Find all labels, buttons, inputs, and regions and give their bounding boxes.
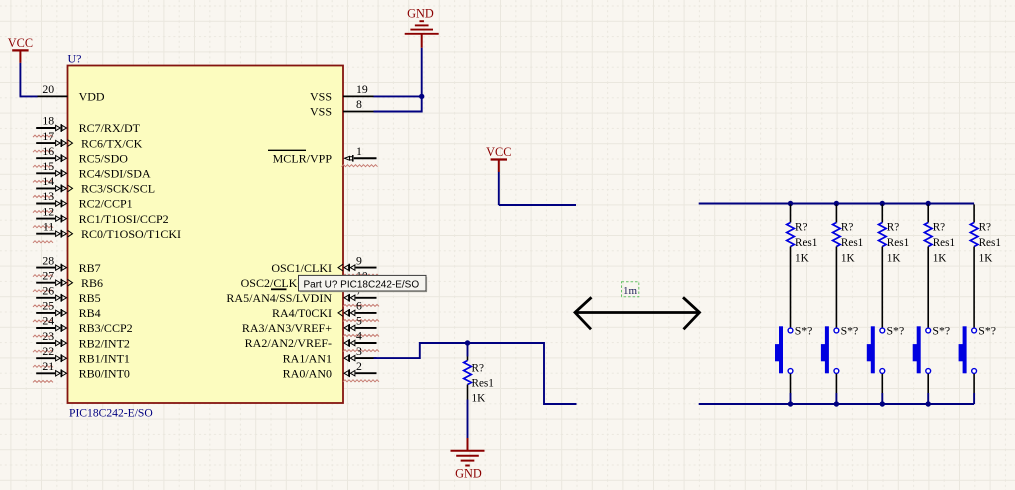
svg-text:U?: U? bbox=[68, 52, 82, 66]
svg-text:25: 25 bbox=[42, 299, 54, 313]
svg-text:R?: R? bbox=[795, 222, 807, 234]
svg-text:23: 23 bbox=[42, 329, 54, 343]
svg-text:S*?: S*? bbox=[795, 323, 813, 337]
svg-text:1: 1 bbox=[356, 144, 362, 158]
svg-text:RA5/AN4/SS/LVDIN: RA5/AN4/SS/LVDIN bbox=[226, 291, 332, 305]
svg-text:GND: GND bbox=[407, 7, 434, 21]
svg-text:RB3/CCP2: RB3/CCP2 bbox=[79, 321, 133, 335]
svg-text:11: 11 bbox=[43, 219, 54, 233]
svg-text:14: 14 bbox=[42, 174, 54, 188]
svg-text:RA1/AN1: RA1/AN1 bbox=[283, 351, 332, 365]
svg-text:3: 3 bbox=[356, 344, 362, 358]
svg-text:RB7: RB7 bbox=[79, 261, 101, 275]
svg-text:Res1: Res1 bbox=[841, 237, 863, 249]
svg-text:RC7/RX/DT: RC7/RX/DT bbox=[79, 121, 141, 135]
svg-text:Part U? PIC18C242-E/SO: Part U? PIC18C242-E/SO bbox=[304, 279, 420, 290]
svg-text:Res1: Res1 bbox=[887, 237, 909, 249]
svg-text:1K: 1K bbox=[472, 392, 486, 404]
svg-text:26: 26 bbox=[42, 284, 54, 298]
svg-text:RC0/T1OSO/T1CKI: RC0/T1OSO/T1CKI bbox=[81, 227, 181, 241]
svg-text:13: 13 bbox=[42, 189, 54, 203]
svg-text:RB4: RB4 bbox=[79, 306, 101, 320]
svg-text:RB1/INT1: RB1/INT1 bbox=[79, 351, 130, 365]
svg-text:VSS: VSS bbox=[310, 105, 332, 119]
svg-text:VCC: VCC bbox=[486, 145, 511, 159]
svg-text:1K: 1K bbox=[887, 253, 901, 265]
svg-text:19: 19 bbox=[356, 82, 368, 96]
svg-text:RB5: RB5 bbox=[79, 291, 101, 305]
svg-text:16: 16 bbox=[42, 144, 54, 158]
svg-text:22: 22 bbox=[42, 344, 54, 358]
svg-text:MCLR/VPP: MCLR/VPP bbox=[273, 152, 333, 166]
svg-text:RC1/T1OSI/CCP2: RC1/T1OSI/CCP2 bbox=[79, 212, 169, 226]
svg-text:Res1: Res1 bbox=[795, 237, 817, 249]
svg-text:RA2/AN2/VREF-: RA2/AN2/VREF- bbox=[245, 336, 332, 350]
svg-text:R?: R? bbox=[841, 222, 853, 234]
svg-text:15: 15 bbox=[42, 159, 54, 173]
svg-text:S*?: S*? bbox=[841, 323, 859, 337]
svg-text:12: 12 bbox=[42, 204, 54, 218]
svg-text:R?: R? bbox=[887, 222, 899, 234]
svg-text:RC5/SDO: RC5/SDO bbox=[79, 151, 129, 165]
svg-text:RA3/AN3/VREF+: RA3/AN3/VREF+ bbox=[242, 321, 332, 335]
svg-text:Res1: Res1 bbox=[933, 237, 955, 249]
svg-text:4: 4 bbox=[356, 329, 362, 343]
svg-text:S*?: S*? bbox=[932, 323, 950, 337]
svg-text:R?: R? bbox=[979, 222, 991, 234]
svg-text:2: 2 bbox=[356, 359, 362, 373]
svg-text:24: 24 bbox=[42, 314, 54, 328]
svg-text:RC2/CCP1: RC2/CCP1 bbox=[79, 197, 133, 211]
svg-text:VDD: VDD bbox=[79, 90, 105, 104]
svg-text:28: 28 bbox=[42, 253, 54, 267]
svg-text:Res1: Res1 bbox=[472, 378, 494, 390]
svg-text:18: 18 bbox=[42, 114, 54, 128]
svg-text:RB0/INT0: RB0/INT0 bbox=[79, 367, 130, 381]
svg-text:GND: GND bbox=[455, 467, 482, 481]
svg-text:1K: 1K bbox=[841, 253, 855, 265]
svg-text:9: 9 bbox=[356, 253, 362, 267]
svg-text:RB6: RB6 bbox=[81, 276, 103, 290]
svg-text:21: 21 bbox=[42, 359, 54, 373]
svg-text:27: 27 bbox=[42, 268, 54, 282]
svg-text:1K: 1K bbox=[795, 253, 809, 265]
svg-text:R?: R? bbox=[933, 222, 945, 234]
svg-text:1K: 1K bbox=[979, 253, 993, 265]
svg-text:S*?: S*? bbox=[887, 323, 905, 337]
svg-text:RC4/SDI/SDA: RC4/SDI/SDA bbox=[79, 167, 151, 181]
svg-text:OSC1/CLKI: OSC1/CLKI bbox=[271, 261, 332, 275]
svg-text:S*?: S*? bbox=[978, 323, 996, 337]
svg-text:RA0/AN0: RA0/AN0 bbox=[283, 366, 332, 380]
svg-text:8: 8 bbox=[356, 97, 362, 111]
svg-text:6: 6 bbox=[356, 299, 362, 313]
svg-text:RC3/SCK/SCL: RC3/SCK/SCL bbox=[81, 182, 155, 196]
svg-text:VSS: VSS bbox=[310, 90, 332, 104]
svg-text:R?: R? bbox=[472, 363, 484, 375]
svg-text:RC6/TX/CK: RC6/TX/CK bbox=[81, 136, 143, 150]
svg-text:1K: 1K bbox=[933, 253, 947, 265]
svg-text:RA4/T0CKI: RA4/T0CKI bbox=[272, 306, 332, 320]
svg-text:Res1: Res1 bbox=[979, 237, 1001, 249]
svg-text:1m: 1m bbox=[623, 285, 638, 297]
svg-text:VCC: VCC bbox=[8, 36, 33, 50]
svg-text:5: 5 bbox=[356, 314, 362, 328]
svg-text:17: 17 bbox=[42, 129, 54, 143]
svg-text:PIC18C242-E/SO: PIC18C242-E/SO bbox=[69, 407, 153, 420]
svg-text:20: 20 bbox=[42, 82, 54, 96]
svg-text:RB2/INT2: RB2/INT2 bbox=[79, 336, 130, 350]
